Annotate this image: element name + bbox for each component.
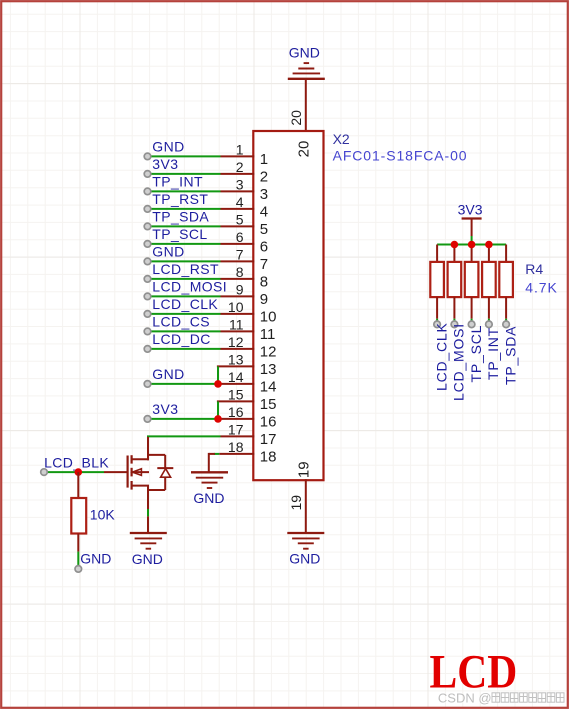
wire net GND pin 7 [148, 260, 221, 262]
svg-text:11: 11 [260, 326, 276, 343]
wire net 3V3 pin 2 [148, 173, 221, 175]
wire bus to R4 element 2 [453, 245, 455, 262]
terminal LCD_RST pin 8 [144, 276, 151, 283]
wire Q1 source to ground [147, 509, 149, 533]
wire R4 element 1 to terminal [436, 297, 438, 321]
net label GND [152, 139, 184, 155]
pin 16 of X2 [221, 404, 277, 431]
net label GND (pin18 ground) [193, 490, 224, 506]
wire net LCD_DC pin 12 [148, 348, 221, 350]
svg-text:12: 12 [260, 344, 277, 361]
svg-text:TP_INT: TP_INT [152, 174, 203, 190]
svg-text:5: 5 [260, 221, 268, 238]
wire net LCD_CS pin 11 [148, 330, 221, 332]
ground symbol (Q1 source) [130, 533, 167, 549]
svg-text:LCD_RST: LCD_RST [152, 261, 219, 277]
pin 5 of X2 [221, 211, 269, 238]
resistor R4 element 3 [465, 262, 479, 297]
svg-text:3V3: 3V3 [152, 156, 178, 172]
net label LCD_BLK [44, 454, 109, 470]
svg-text:10K: 10K [90, 506, 116, 522]
svg-text:2: 2 [236, 159, 244, 175]
svg-text:TP_SDA: TP_SDA [152, 209, 209, 225]
pin 17 of X2 [221, 421, 277, 448]
svg-text:15: 15 [228, 386, 244, 402]
power port GND (top, pin 20 net) [288, 45, 325, 79]
svg-text:17: 17 [260, 431, 277, 448]
watermark CSDN [438, 691, 564, 706]
svg-text:GND: GND [289, 551, 320, 567]
wire net TP_INT pin 3 [148, 190, 221, 192]
designator X2 [333, 131, 350, 147]
svg-text:GND: GND [152, 139, 184, 155]
pin 13 of X2 [217, 351, 277, 378]
value label 10K [90, 506, 116, 522]
svg-text:3V3: 3V3 [458, 201, 483, 217]
svg-text:1: 1 [260, 151, 268, 168]
terminal TP_SDA (R4) [503, 321, 510, 328]
wire LCD_BLK to gate [44, 471, 104, 473]
net label GND (pin14) [152, 366, 184, 382]
pin 1 of X2 [221, 141, 269, 168]
wire pin15 to pin16 junction [217, 401, 219, 419]
svg-text:15: 15 [260, 396, 277, 413]
net label LCD_CS [152, 314, 210, 330]
terminal TP_SCL pin 6 [144, 241, 151, 248]
svg-text:8: 8 [260, 274, 268, 291]
svg-text:4: 4 [236, 194, 244, 210]
net label LCD_DC [152, 331, 210, 347]
pin 7 of X2 [221, 246, 269, 273]
terminal LCD_MOSI (R4) [451, 321, 458, 328]
svg-text:18: 18 [260, 449, 277, 466]
svg-text:3: 3 [236, 176, 244, 192]
svg-text:16: 16 [228, 404, 244, 420]
svg-text:19: 19 [288, 495, 304, 511]
wire net LCD_CLK pin 10 [148, 313, 221, 315]
value 4.7K [525, 280, 557, 296]
svg-text:AFC01-S18FCA-00: AFC01-S18FCA-00 [333, 148, 468, 164]
title LCD [429, 645, 517, 698]
svg-text:LCD_DC: LCD_DC [152, 331, 210, 347]
comment AFC01-S18FCA-00 [333, 148, 468, 164]
junction R4 bus (right) [485, 241, 493, 249]
pin number 19 (outside) [288, 495, 304, 511]
net label LCD_MOSI (rotated) [451, 323, 467, 401]
svg-text:10: 10 [228, 299, 244, 315]
svg-text:TP_SCL: TP_SCL [468, 325, 484, 383]
pin 12 of X2 [221, 334, 277, 361]
pin number 20 (outside) [288, 110, 304, 126]
junction pin16 [214, 415, 222, 423]
svg-text:GND: GND [132, 551, 163, 567]
svg-text:3V3: 3V3 [152, 401, 178, 417]
net label GND (pin19 ground) [289, 551, 320, 567]
terminal LCD_DC pin 12 [144, 346, 151, 353]
terminal TP_INT pin 3 [144, 188, 151, 195]
svg-text:12: 12 [228, 334, 244, 350]
designator R4 [525, 261, 543, 277]
net label TP_SCL [152, 226, 207, 242]
svg-text:13: 13 [260, 361, 277, 378]
svg-text:7: 7 [236, 246, 244, 262]
svg-text:GND: GND [193, 490, 224, 506]
wire R4 top bus [437, 244, 506, 246]
wire bus to R4 element 5 [505, 245, 507, 262]
net label GND [152, 244, 184, 260]
wire net GND pin 1 [148, 155, 221, 157]
wire bus to R4 element 4 [488, 245, 490, 262]
net label LCD_CLK (rotated) [433, 322, 449, 391]
pin 14 of X2 [221, 369, 277, 396]
wire resistor to GND terminal [77, 534, 79, 566]
svg-text:11: 11 [229, 316, 244, 332]
junction pin14 [214, 380, 222, 388]
svg-text:9: 9 [260, 291, 268, 308]
resistor R4 element 1 [430, 262, 444, 297]
junction R4 bus (left) [451, 241, 459, 249]
net label TP_INT (rotated) [485, 327, 501, 380]
svg-text:5: 5 [236, 211, 244, 227]
pin 4 of X2 [221, 194, 269, 221]
svg-text:19: 19 [295, 461, 312, 478]
transistor Q1 N-MOSFET [104, 437, 173, 509]
net label LCD_RST [152, 261, 219, 277]
junction LCD_BLK / R pullup [75, 468, 83, 476]
svg-text:X2: X2 [333, 131, 350, 147]
wire junction to resistor [77, 472, 79, 498]
terminal 3V3 pin 2 [144, 171, 151, 178]
svg-text:GND: GND [289, 45, 320, 61]
svg-text:18: 18 [228, 439, 244, 455]
svg-text:CSDN @: CSDN @ [438, 691, 492, 706]
svg-text:14: 14 [260, 379, 277, 396]
svg-text:6: 6 [260, 239, 268, 256]
svg-text:R4: R4 [525, 261, 543, 277]
svg-text:17: 17 [228, 421, 244, 437]
wire 3V3 to bus [471, 219, 473, 245]
ground symbol (pin19) [287, 533, 324, 549]
net label LCD_CLK [152, 296, 218, 312]
net label GND (below 10K) [80, 551, 111, 567]
svg-text:10: 10 [260, 309, 277, 326]
pin 18 of X2 [219, 439, 276, 466]
svg-text:GND: GND [152, 366, 184, 382]
pin 3 of X2 [221, 176, 269, 203]
svg-text:3: 3 [260, 186, 268, 203]
net label 3V3 [152, 156, 178, 172]
wire net LCD_RST pin 8 [148, 278, 221, 280]
resistor 10K body [71, 498, 86, 534]
junction R4 bus (mid) [468, 241, 476, 249]
terminal LCD_CS pin 11 [144, 328, 151, 335]
wire net LCD_MOSI pin 9 [148, 295, 221, 297]
wire net TP_RST pin 4 [148, 208, 221, 210]
terminal LCD_CLK pin 10 [144, 311, 151, 318]
net label TP_RST [152, 191, 208, 207]
terminal GND (below 10K) [75, 566, 82, 573]
terminal TP_INT (R4) [486, 321, 493, 328]
net label TP_SDA (rotated) [502, 326, 518, 385]
terminal GND pin 1 [144, 153, 151, 160]
wire GND to pin14 [148, 383, 219, 385]
pin 15 of X2 [217, 386, 277, 413]
svg-text:LCD_MOSI: LCD_MOSI [152, 279, 227, 295]
pin 10 of X2 [221, 299, 277, 326]
net label TP_INT [152, 174, 203, 190]
terminal TP_SDA pin 5 [144, 223, 151, 230]
resistor R4 element 4 [482, 262, 496, 297]
svg-text:LCD_MOSI: LCD_MOSI [451, 323, 467, 401]
svg-text:LCD_CS: LCD_CS [152, 314, 210, 330]
svg-text:LCD_BLK: LCD_BLK [44, 454, 109, 470]
svg-text:TP_INT: TP_INT [485, 327, 501, 380]
svg-text:14: 14 [228, 369, 244, 385]
terminal LCD_MOSI pin 9 [144, 293, 151, 300]
wire net TP_SDA pin 5 [148, 225, 221, 227]
pin 9 of X2 [221, 281, 269, 308]
svg-text:4.7K: 4.7K [525, 280, 557, 296]
terminal GND pin 7 [144, 258, 151, 265]
net label TP_SDA [152, 209, 209, 225]
svg-text:13: 13 [228, 351, 244, 367]
terminal 3V3 pin16 [144, 416, 151, 423]
terminal TP_SCL (R4) [468, 321, 475, 328]
resistor R4 element 5 [499, 262, 513, 297]
resistor R4 element 2 [448, 262, 462, 297]
wire pin19 to GND [305, 479, 307, 533]
pin 2 of X2 [221, 159, 269, 186]
svg-text:8: 8 [236, 264, 244, 280]
pin 6 of X2 [221, 229, 269, 256]
svg-text:16: 16 [260, 414, 277, 431]
svg-text:TP_SCL: TP_SCL [152, 226, 207, 242]
svg-text:TP_RST: TP_RST [152, 191, 208, 207]
ground symbol (pin18) [191, 472, 228, 488]
svg-text:1: 1 [236, 141, 244, 157]
svg-text:LCD_CLK: LCD_CLK [152, 296, 218, 312]
svg-text:20: 20 [288, 110, 304, 126]
wire pin13 to pin14 junction [217, 366, 219, 384]
pin 11 of X2 [221, 316, 276, 343]
wire bus to R4 element 3 [471, 245, 473, 262]
net label LCD_MOSI [152, 279, 227, 295]
svg-text:TP_SDA: TP_SDA [502, 326, 518, 385]
pin 19 name (inside) [295, 461, 312, 478]
svg-text:GND: GND [152, 244, 184, 260]
svg-text:4: 4 [260, 204, 268, 221]
connector X2 AFC01-S18FCA-00 body [253, 131, 323, 480]
wire R4 element 3 to terminal [471, 297, 473, 321]
terminal GND pin14 [144, 381, 151, 388]
pin 8 of X2 [221, 264, 269, 291]
wire R4 element 5 to terminal [505, 297, 507, 321]
terminal LCD_BLK [41, 469, 48, 476]
svg-text:GND: GND [80, 551, 111, 567]
pin 20 name (inside) [295, 141, 312, 158]
svg-text:7: 7 [260, 256, 268, 273]
svg-text:LCD_CLK: LCD_CLK [433, 322, 449, 391]
wire R4 element 4 to terminal [488, 297, 490, 321]
net label 3V3 (pin16) [152, 401, 178, 417]
net label GND (Q1 ground) [132, 551, 163, 567]
wire net TP_SCL pin 6 [148, 243, 221, 245]
wire bus to R4 element 1 [436, 245, 438, 262]
wire R4 element 2 to terminal [453, 297, 455, 321]
terminal TP_RST pin 4 [144, 206, 151, 213]
svg-text:2: 2 [260, 169, 268, 186]
wire 3V3 to pin16 [148, 418, 219, 420]
net label TP_SCL (rotated) [468, 325, 484, 383]
svg-text:6: 6 [236, 229, 244, 245]
wire pin17 to Q1 drain [147, 435, 221, 437]
power port 3V3 (R4) [458, 201, 483, 218]
wire pin18 down to GND [209, 453, 220, 472]
wire pin20 to GND [305, 79, 307, 132]
svg-text:20: 20 [295, 141, 312, 158]
svg-text:9: 9 [236, 281, 244, 297]
terminal LCD_CLK (R4) [434, 321, 441, 328]
